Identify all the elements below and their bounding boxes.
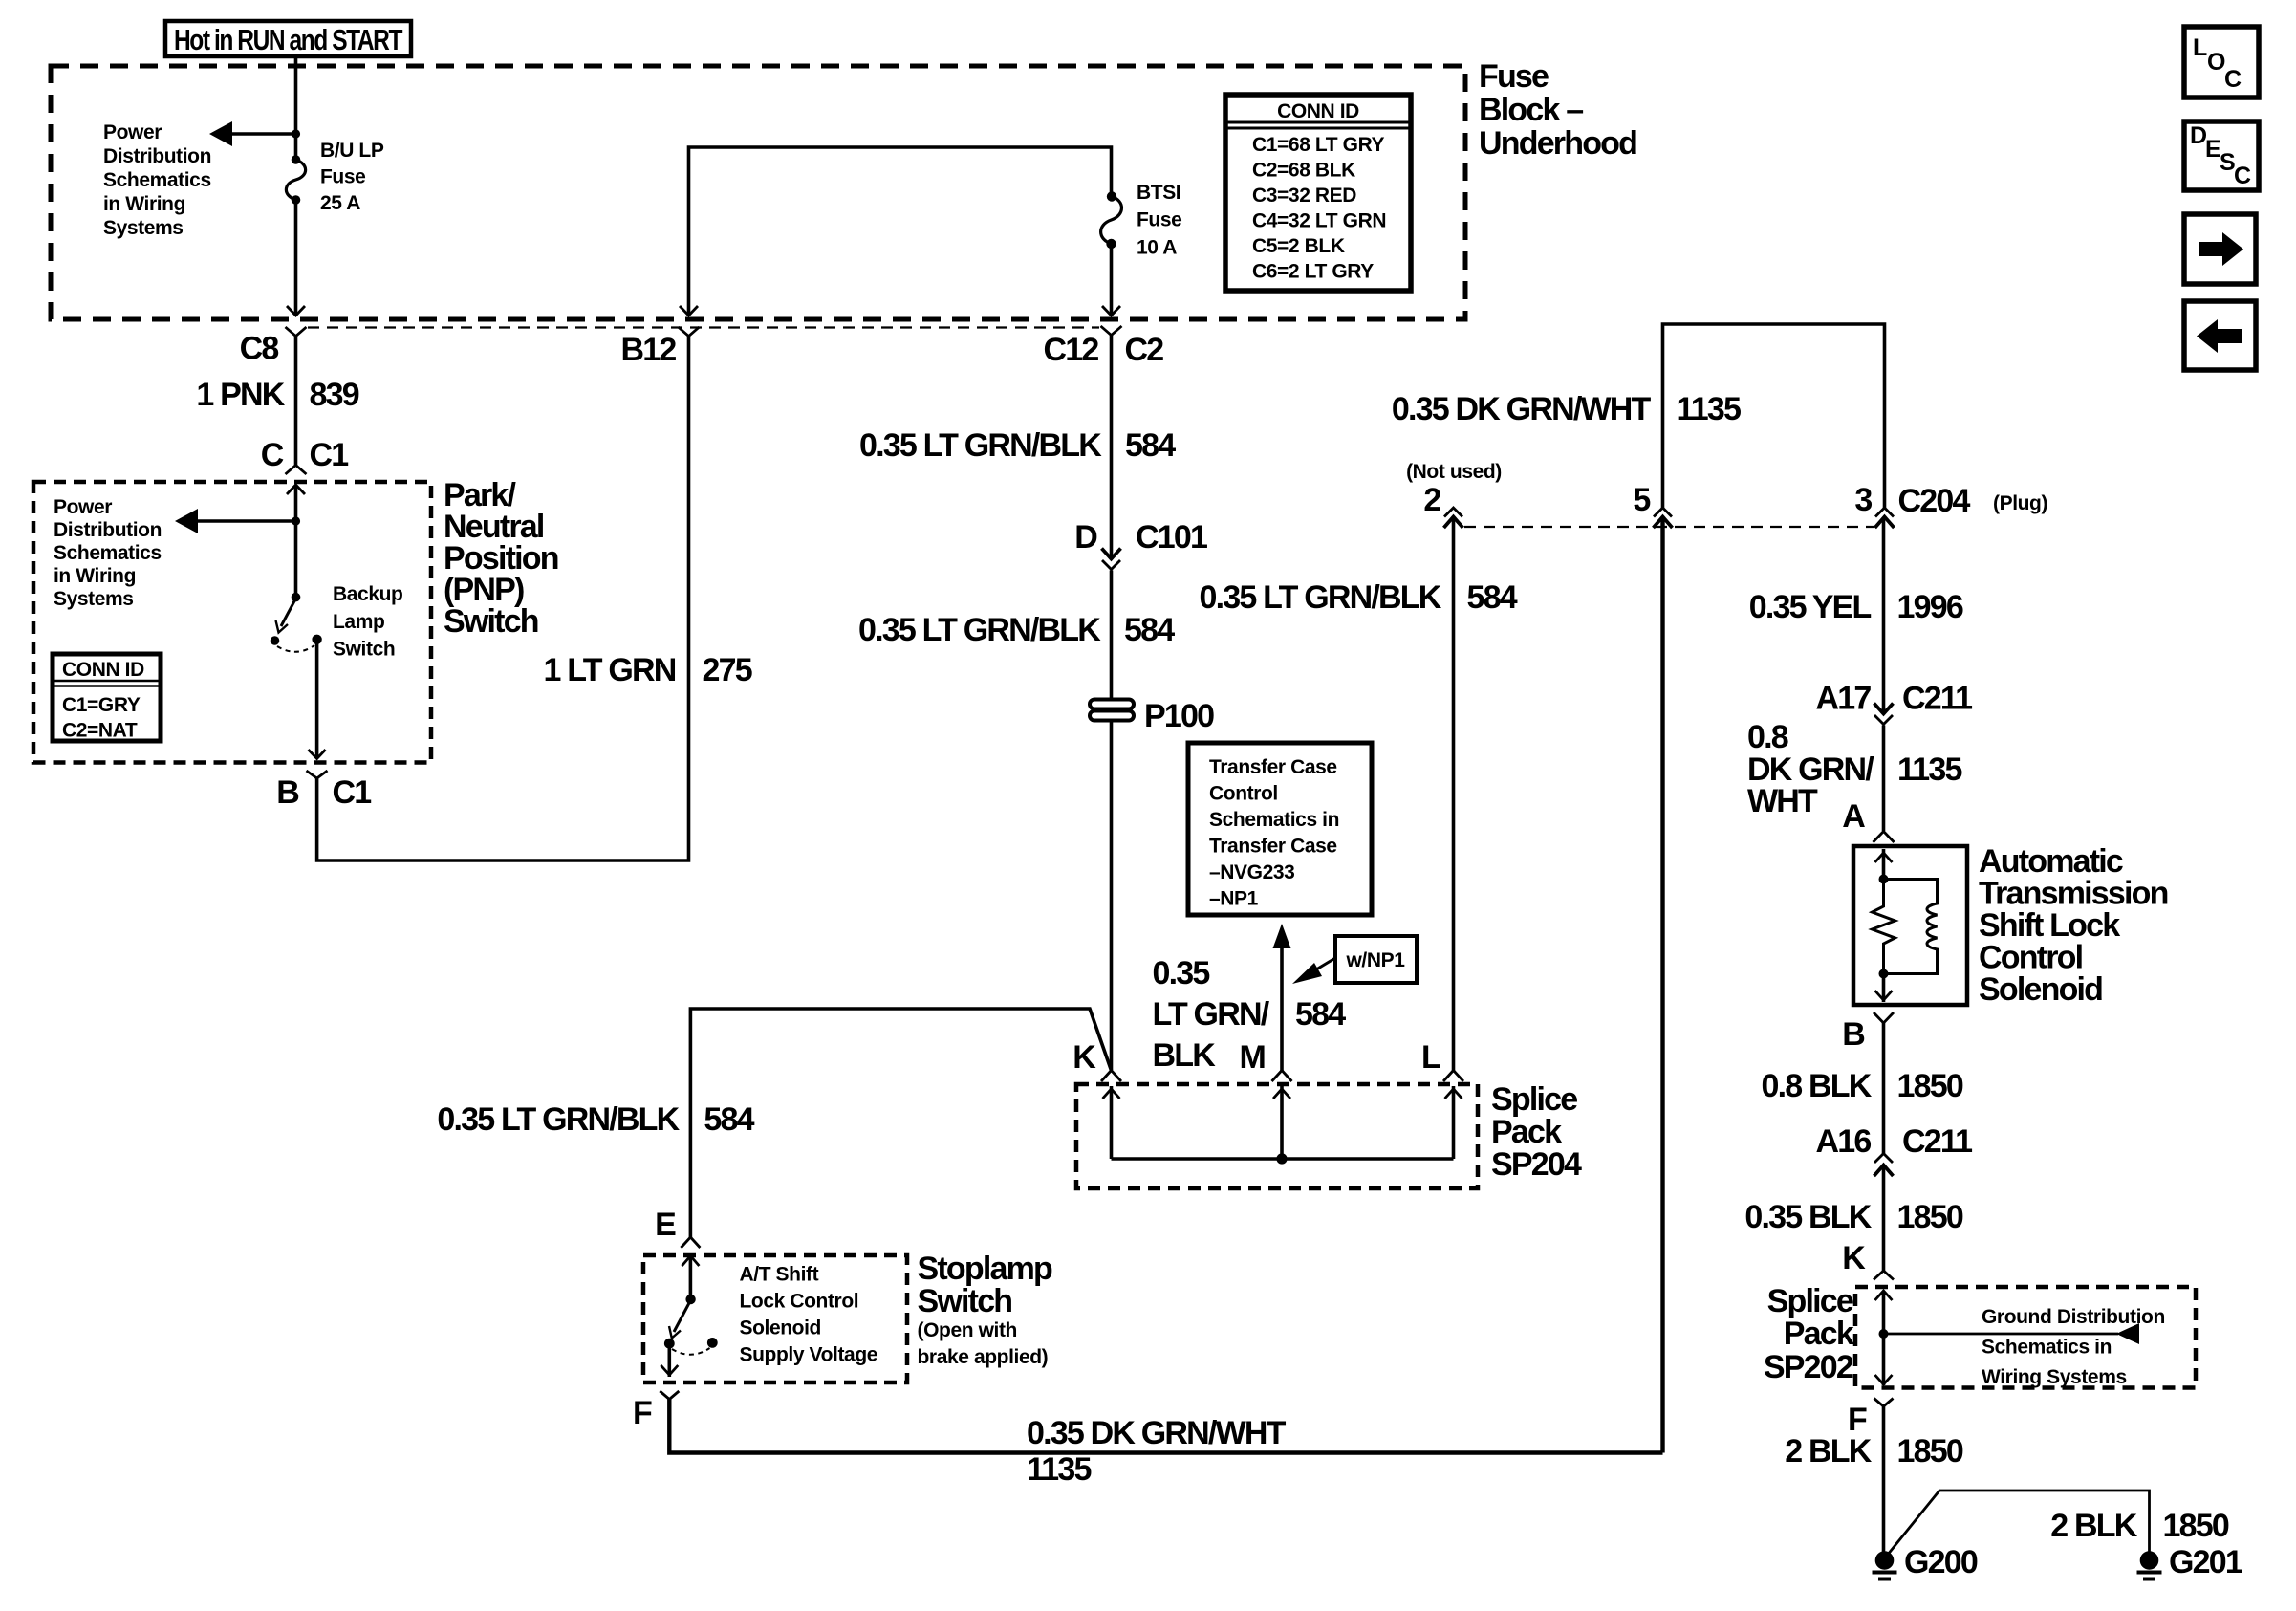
svg-text:D: D [1074,519,1097,555]
svg-text:0.35 LT GRN/BLK: 0.35 LT GRN/BLK [437,1101,680,1138]
svg-text:(Not used): (Not used) [1406,461,1502,483]
wire: BTSI output down to C2 [1110,244,1114,315]
svg-text:C4=32 LT GRN: C4=32 LT GRN [1252,210,1386,232]
svg-text:B/U LP: B/U LP [320,140,384,162]
solid arrowhead to transfer case [1273,924,1291,948]
nav box next arrow [2184,214,2256,284]
connector chevron F (stoplamp) [660,1391,679,1400]
svg-text:Power: Power [54,496,112,518]
svg-text:C12: C12 [1044,332,1099,368]
svg-text:1850: 1850 [2163,1508,2229,1544]
svg-text:2: 2 [1423,482,1440,518]
ground G200 [1875,1551,1895,1570]
wire: tap to power distribution with left arrow [192,519,296,523]
SP202 exit wire [1882,1334,1886,1385]
wire: fuse output down to C8 [294,200,298,315]
svg-text:2 BLK: 2 BLK [2050,1508,2137,1544]
wire: 1 LT GRN 275 from B/C1 up to B12 [317,337,689,861]
switch throw arc (dashed) [277,645,314,652]
fuse F1: B/U LP Fuse 25 A [292,155,301,164]
label box: Hot in RUN and START [165,21,411,56]
svg-text:C: C [261,437,284,473]
solenoid internals: entry wire [1882,849,1886,880]
in-line connector A17 / C211 [1874,704,1894,714]
svg-text:(Open with: (Open with [918,1319,1018,1341]
svg-text:0.35 DK GRN/WHT: 0.35 DK GRN/WHT [1392,391,1652,427]
wire: 0.35 DK GRN/WHT 1135 from F to pin 5 riser [669,1400,1662,1453]
svg-text:G200: G200 [1904,1544,1978,1580]
svg-text:G201: G201 [2169,1544,2242,1580]
nav box LOC [2184,27,2259,98]
connector chevron K [1101,1071,1121,1082]
svg-text:C2=68 BLK: C2=68 BLK [1252,160,1355,182]
svg-text:Fuse: Fuse [320,166,365,188]
svg-text:Schematics: Schematics [54,542,162,564]
svg-text:Splice: Splice [1491,1081,1577,1118]
svg-text:C211: C211 [1902,1123,1972,1160]
table: CONN ID (fuse block) [1225,95,1411,291]
svg-text:Backup: Backup [333,583,402,605]
svg-text:K: K [1842,1240,1866,1276]
junction dot [292,129,300,138]
wire: 0.35 BLK 1850 from C211 to K [1882,1166,1886,1271]
svg-text:Distribution: Distribution [103,145,211,167]
svg-text:0.8 BLK: 0.8 BLK [1762,1068,1873,1104]
switch contact dots [271,636,280,645]
svg-text:Pack: Pack [1784,1316,1854,1352]
arrowhead down at fuse box border [287,306,305,316]
svg-text:Transfer Case: Transfer Case [1209,756,1337,778]
wire: M up to transfer case arrow [1280,948,1284,1071]
svg-text:0.35: 0.35 [1153,955,1210,991]
wire: P100 down to splice pack K [1110,721,1114,1071]
splice bus inside SP204 [1112,1157,1454,1161]
svg-text:C3=32 RED: C3=32 RED [1252,185,1356,207]
connector chevron B12 [679,327,700,337]
svg-text:1850: 1850 [1897,1068,1963,1104]
svg-text:BLK: BLK [1153,1037,1217,1074]
arrowhead down at fuse box border (C12/C2) [1102,306,1120,316]
svg-text:0.35 BLK: 0.35 BLK [1744,1199,1872,1235]
nav box DESC [2184,121,2259,190]
svg-text:1 PNK: 1 PNK [196,377,285,413]
svg-text:SP204: SP204 [1491,1146,1582,1183]
svg-text:Control: Control [1209,783,1278,805]
svg-text:Schematics in: Schematics in [1982,1337,2112,1359]
svg-text:Splice: Splice [1767,1283,1853,1319]
svg-text:M: M [1239,1039,1265,1076]
svg-text:0.35 LT GRN/BLK: 0.35 LT GRN/BLK [859,427,1102,464]
wire: backup lamp output down to B/C1 [315,642,319,758]
wire: 2 BLK 1850 from F to G200 [1882,1406,1886,1552]
svg-text:Schematics in: Schematics in [1209,809,1339,831]
svg-text:A/T Shift: A/T Shift [740,1264,819,1286]
svg-text:D: D [2190,122,2207,149]
svg-text:Switch: Switch [444,603,538,640]
svg-text:1996: 1996 [1897,589,1963,625]
svg-text:L: L [1421,1039,1440,1076]
wire: power distribution tap with left arrow [227,132,296,136]
svg-text:Fuse: Fuse [1479,58,1549,95]
in-line connector D / C101 [1102,549,1121,559]
svg-text:Supply Voltage: Supply Voltage [740,1344,878,1366]
component box: Stoplamp Switch (dashed) [643,1255,907,1382]
connector chevron C8 [286,327,307,337]
box: Transfer Case Control Schematics [1188,743,1372,915]
svg-text:584: 584 [704,1101,754,1138]
connector face line under fuse block [308,326,1099,328]
svg-text:0.35 YEL: 0.35 YEL [1749,589,1872,625]
wire: 0.8 BLK 1850 from B to C211 [1882,1023,1886,1154]
svg-text:A17: A17 [1816,681,1872,717]
svg-text:C1=GRY: C1=GRY [62,694,141,716]
svg-text:3: 3 [1854,482,1872,518]
wire: entry into PNP switch with up arrow [294,486,298,597]
svg-text:Pack: Pack [1491,1114,1562,1150]
svg-text:L: L [2193,34,2207,61]
arrow from w/NP1 to wire [1311,958,1335,972]
nav box prev arrow [2184,301,2256,370]
svg-text:584: 584 [1467,579,1518,616]
svg-text:C: C [2234,163,2251,189]
svg-text:brake applied): brake applied) [918,1346,1049,1368]
arrowhead: to power distribution [209,121,232,146]
connector chevron F (SP202) [1874,1399,1894,1407]
svg-text:F: F [633,1395,652,1431]
svg-text:B: B [1842,1016,1865,1053]
svg-text:Solenoid: Solenoid [1979,971,2102,1008]
svg-text:0.35 LT GRN/BLK: 0.35 LT GRN/BLK [1200,579,1442,616]
wire: 1 PNK 839 from C8 to C1 [294,337,298,466]
svg-text:C1=68 LT GRY: C1=68 LT GRY [1252,134,1385,156]
wire: 0.8 DK GRN/WHT 1135 to solenoid [1882,726,1886,832]
coil branch [1884,880,1938,974]
splice junction dot [1276,1153,1287,1164]
svg-text:Wiring Systems: Wiring Systems [1982,1366,2127,1388]
svg-text:Fuse: Fuse [1137,209,1181,231]
svg-text:BTSI: BTSI [1137,182,1180,204]
wire: 5 down to F run [1660,518,1664,1453]
svg-text:Automatic: Automatic [1979,843,2123,880]
svg-text:Shift Lock: Shift Lock [1979,907,2120,944]
svg-text:SP202: SP202 [1764,1349,1853,1385]
svg-text:C101: C101 [1136,519,1207,555]
connector chevron K (SP202) [1874,1271,1894,1280]
svg-text:in Wiring: in Wiring [54,565,136,587]
svg-text:Lamp: Lamp [333,611,384,633]
wire: 2 BLK 1850 branch to G201 [1887,1491,2150,1556]
svg-text:Transfer Case: Transfer Case [1209,836,1337,858]
svg-text:CONN ID: CONN ID [62,659,144,681]
component box: shift lock solenoid [1853,846,1967,1005]
svg-text:A16: A16 [1816,1123,1872,1160]
connector chevron A [1874,832,1895,843]
connector pin 5 [1654,508,1672,517]
svg-text:2 BLK: 2 BLK [1785,1433,1872,1469]
svg-text:P100: P100 [1144,698,1214,734]
svg-text:584: 584 [1125,427,1176,464]
svg-text:K: K [1072,1039,1096,1076]
connector chevron M [1272,1071,1292,1082]
svg-text:Systems: Systems [103,217,184,239]
wire: L up to pin 2 [1452,518,1456,1071]
wire: B12 feed inside fuse box [689,147,1112,315]
svg-text:E: E [2205,136,2220,163]
wire: loop from pin 5 up over to pin 3 [1663,324,1885,508]
box: w/NP1 tag [1335,936,1417,983]
connector chevron E [681,1237,700,1248]
svg-text:25 A: 25 A [320,192,360,214]
svg-text:WHT: WHT [1747,783,1818,819]
resistor [1873,880,1895,974]
connector chevron B / C1 [307,771,328,778]
svg-text:C1: C1 [333,774,372,811]
component box: Splice Pack SP204 (dashed) [1076,1084,1478,1188]
svg-text:Underhood: Underhood [1479,125,1636,162]
stoplamp exit wire [667,1348,671,1377]
svg-text:C8: C8 [240,331,279,367]
svg-text:0.35 DK GRN/WHT: 0.35 DK GRN/WHT [1027,1415,1287,1451]
wire: 0.35 LT GRN/BLK 584 from C2 to C101 [1110,336,1114,559]
svg-text:584: 584 [1295,996,1346,1033]
svg-text:Transmission: Transmission [1979,876,2168,912]
svg-text:Schematics: Schematics [103,169,211,191]
connector chevron C / C1 [286,466,307,475]
svg-text:Control: Control [1979,940,2083,976]
svg-text:Solenoid: Solenoid [740,1317,821,1339]
reference arrow to ground distribution [1884,1333,2119,1336]
svg-text:1135: 1135 [1027,1451,1091,1488]
connector chevron C12/C2 [1101,326,1122,336]
svg-text:w/NP1: w/NP1 [1345,949,1405,971]
svg-text:C211: C211 [1902,681,1972,717]
component box: Park/Neutral Position Switch (dashed) [33,482,431,763]
component box: Splice Pack SP202 (dashed) [1855,1287,2196,1388]
svg-text:0.35 LT GRN/BLK: 0.35 LT GRN/BLK [858,612,1101,648]
svg-text:A: A [1842,798,1865,835]
svg-text:1135: 1135 [1677,391,1741,427]
stoplamp switch internals [689,1255,693,1299]
exit wire with down arrow [1882,974,1886,1003]
svg-text:839: 839 [310,377,359,413]
svg-text:in Wiring: in Wiring [103,193,185,215]
svg-text:584: 584 [1124,612,1175,648]
wire: E branch from stoplamp to K [690,1009,1111,1237]
svg-text:1850: 1850 [1897,1433,1963,1469]
connector pin 2 (C204, not used) [1444,508,1462,517]
svg-text:1850: 1850 [1897,1199,1963,1235]
svg-text:Distribution: Distribution [54,519,162,541]
connector chevron L [1443,1071,1463,1082]
svg-text:0.8: 0.8 [1747,719,1788,755]
table: CONN ID (PNP) [53,654,161,741]
svg-text:Power: Power [103,121,162,143]
svg-text:5: 5 [1633,482,1650,518]
svg-text:O: O [2207,49,2225,76]
svg-text:C2: C2 [1125,332,1164,368]
svg-text:(Plug): (Plug) [1993,492,2047,514]
svg-text:10 A: 10 A [1137,237,1177,259]
svg-text:Systems: Systems [54,588,134,610]
svg-text:C6=2 LT GRY: C6=2 LT GRY [1252,261,1374,283]
svg-text:Switch: Switch [918,1283,1012,1319]
svg-text:C5=2 BLK: C5=2 BLK [1252,235,1345,257]
connector pin 3 [1875,508,1894,517]
svg-text:Switch: Switch [333,639,395,661]
svg-text:1 LT GRN: 1 LT GRN [544,652,676,688]
grommet P100 [1090,700,1134,709]
ground G201 [2140,1551,2159,1570]
svg-text:C1: C1 [310,437,349,473]
wire: hot feed into fuse box [294,56,298,160]
svg-text:1135: 1135 [1897,751,1961,788]
component box: Fuse Block - Underhood (dashed) [51,66,1465,319]
svg-text:C: C [2224,66,2242,93]
svg-text:Lock Control: Lock Control [740,1291,859,1313]
svg-text:E: E [655,1207,676,1243]
wire: 0.35 YEL 1996 from pin 3 down [1882,518,1886,714]
svg-text:CONN ID: CONN ID [1277,100,1359,122]
switch: backup lamp switch arm [292,593,301,602]
svg-text:LT GRN/: LT GRN/ [1153,996,1270,1033]
svg-text:275: 275 [703,652,752,688]
wire: 0.35 LT GRN/BLK 584 from C101 to P100 [1110,571,1114,700]
svg-text:C204: C204 [1898,483,1971,519]
fuse F2: BTSI Fuse 10 A [1107,191,1116,201]
svg-text:–NP1: –NP1 [1209,888,1259,910]
svg-text:S: S [2220,149,2235,176]
in-line connector A16 / C211 [1874,1154,1893,1164]
svg-text:B12: B12 [621,332,677,368]
SP202 internals [1882,1291,1886,1334]
svg-text:Hot in RUN and START: Hot in RUN and START [174,23,402,56]
svg-text:C2=NAT: C2=NAT [62,720,138,742]
svg-text:Ground Distribution: Ground Distribution [1982,1306,2165,1328]
arrowhead down at fuse box border (B12) [680,306,698,316]
svg-text:Stoplamp: Stoplamp [918,1251,1053,1287]
svg-text:B: B [276,774,299,811]
svg-text:–NVG233: –NVG233 [1209,861,1294,883]
dashed connector line C204 [1464,526,1874,528]
connector chevron B [1874,1012,1894,1023]
svg-text:Block –: Block – [1479,92,1583,128]
